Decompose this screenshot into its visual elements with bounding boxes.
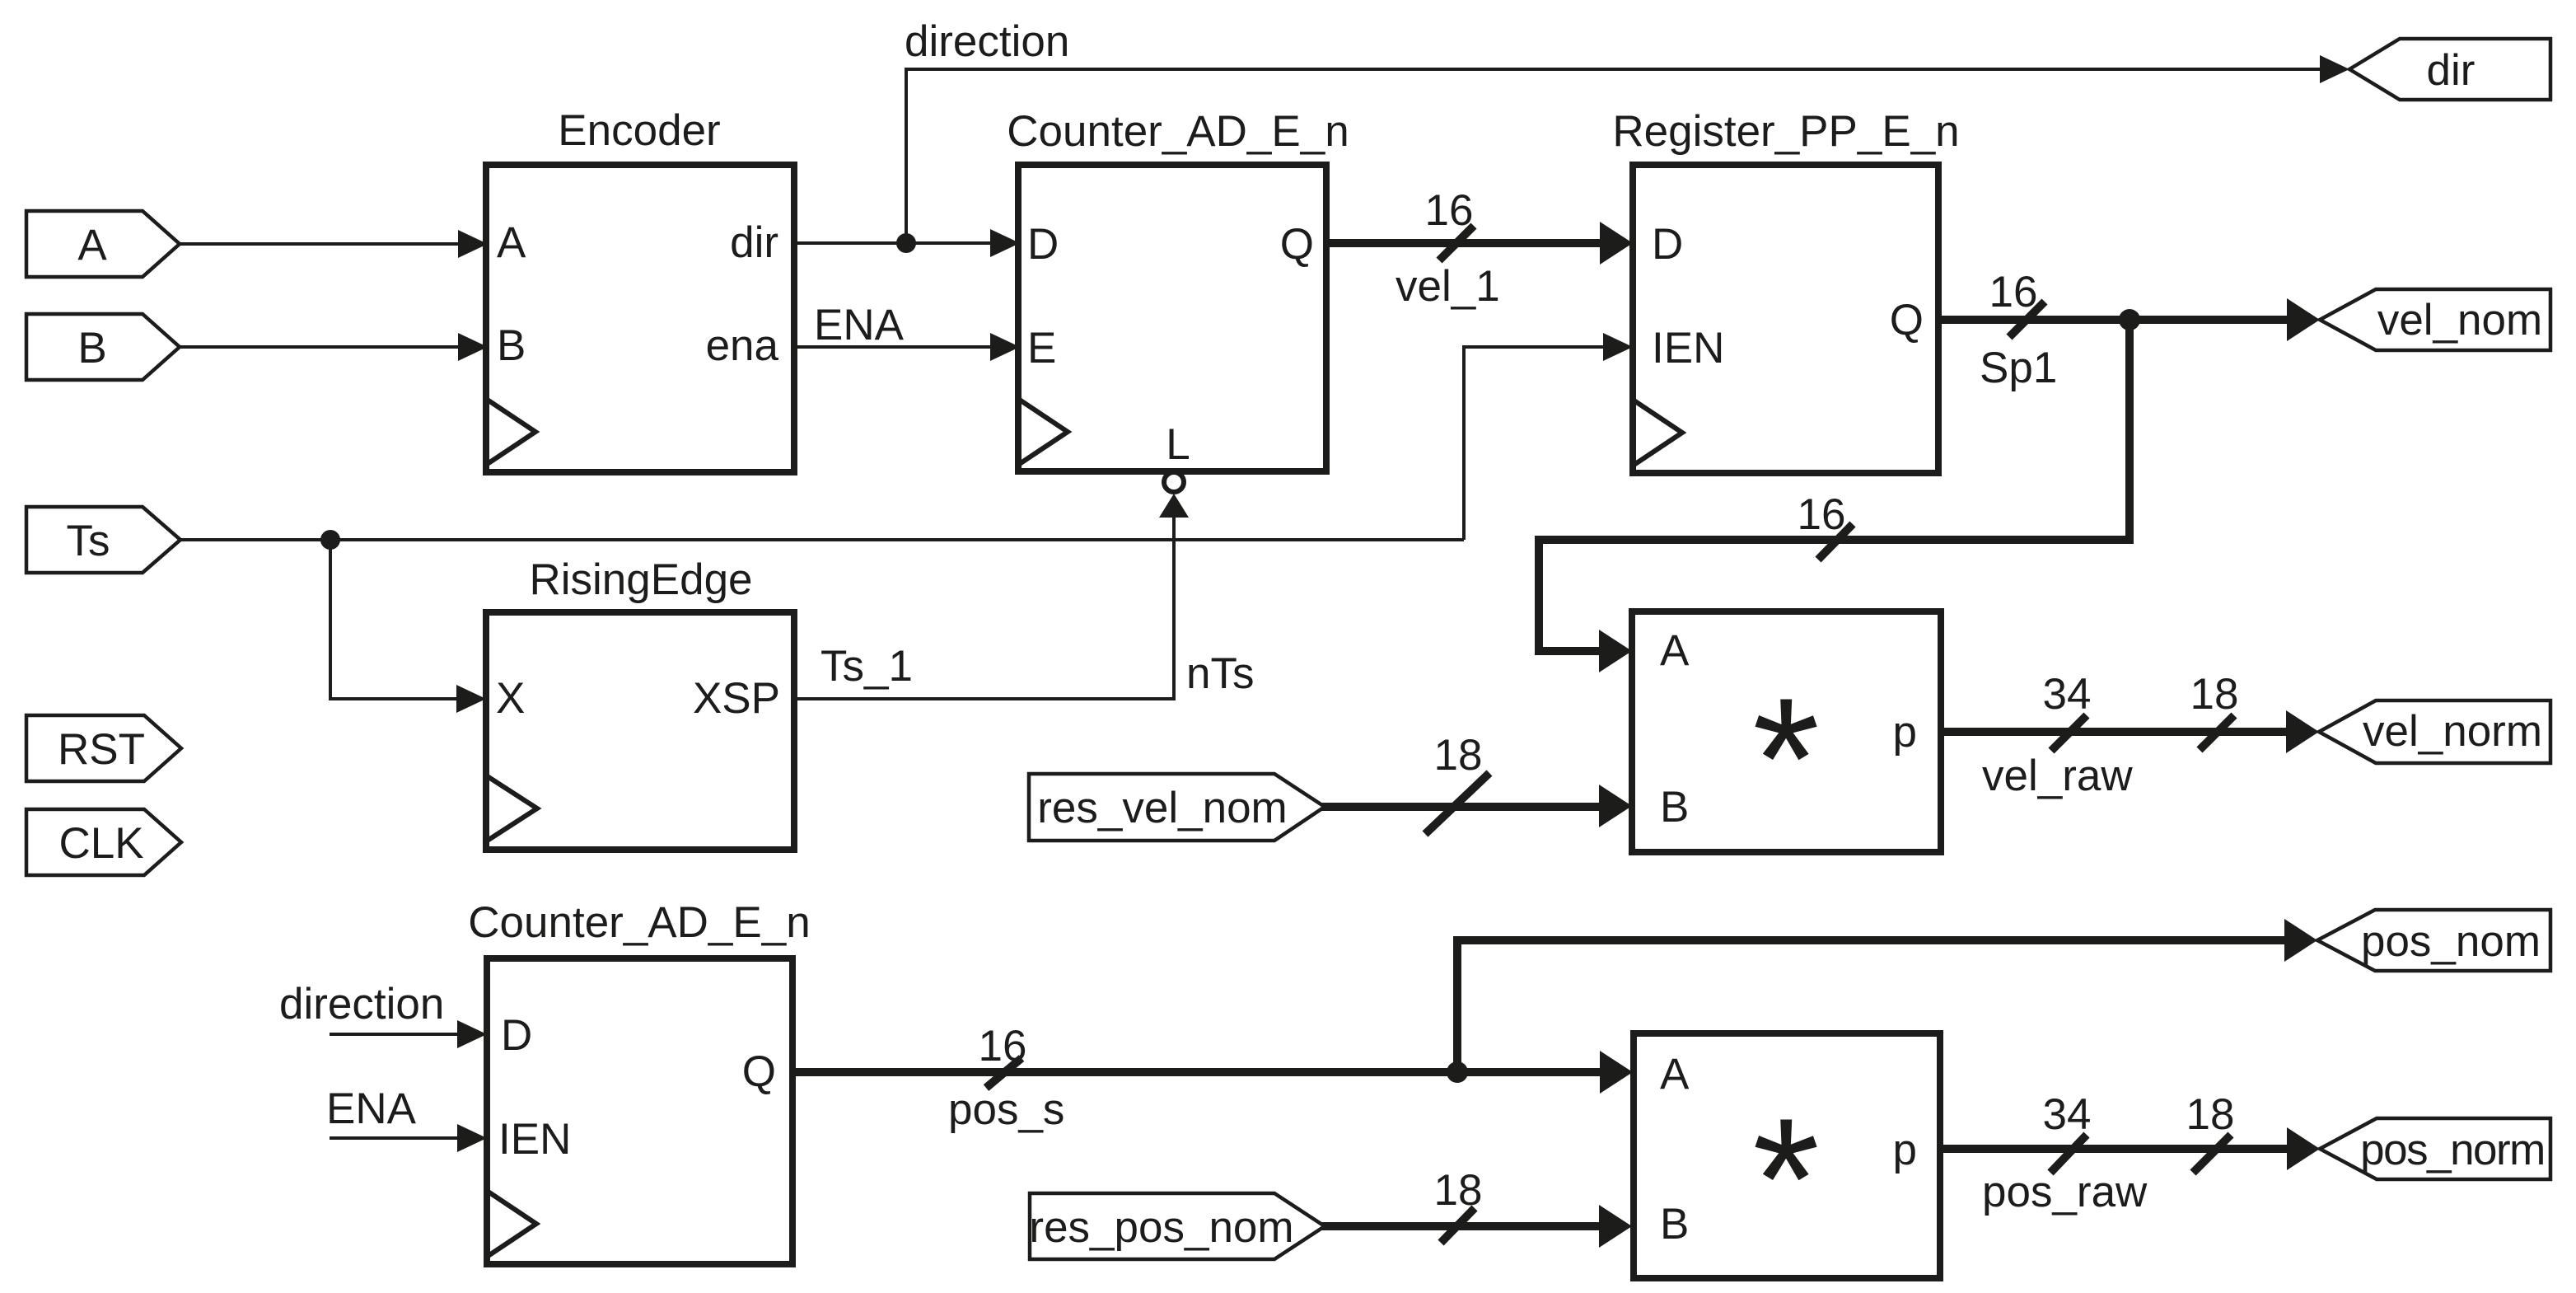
svg-text:B: B	[1660, 783, 1689, 832]
svg-text:RisingEdge: RisingEdge	[529, 555, 752, 604]
svg-text:res_pos_nom: res_pos_nom	[1029, 1203, 1293, 1252]
svg-text:18: 18	[1434, 731, 1483, 780]
svg-text:Register_PP_E_n: Register_PP_E_n	[1612, 107, 1959, 156]
svg-text:16: 16	[979, 1022, 1027, 1070]
svg-text:Q: Q	[742, 1047, 776, 1096]
svg-text:D: D	[501, 1011, 532, 1060]
svg-text:D: D	[1652, 220, 1683, 269]
svg-text:CLK: CLK	[58, 819, 143, 868]
svg-text:*: *	[1752, 662, 1820, 855]
svg-text:ena: ena	[706, 321, 779, 370]
svg-text:ENA: ENA	[326, 1085, 417, 1133]
svg-text:A: A	[77, 221, 107, 269]
svg-text:Sp1: Sp1	[1980, 344, 2057, 392]
svg-text:vel_1: vel_1	[1396, 262, 1500, 311]
svg-text:Encoder: Encoder	[558, 106, 720, 155]
svg-text:34: 34	[2043, 670, 2092, 719]
svg-text:18: 18	[2186, 1090, 2235, 1139]
svg-text:B: B	[1660, 1200, 1689, 1248]
svg-text:Counter_AD_E_n: Counter_AD_E_n	[1007, 107, 1349, 156]
svg-text:pos_norm: pos_norm	[2360, 1126, 2545, 1174]
svg-text:Q: Q	[1280, 220, 1314, 269]
svg-text:direction: direction	[279, 980, 444, 1028]
svg-text:vel_norm: vel_norm	[2363, 707, 2542, 756]
svg-text:E: E	[1027, 324, 1056, 372]
svg-text:p: p	[1893, 708, 1917, 757]
svg-text:vel_raw: vel_raw	[1982, 752, 2133, 800]
svg-text:dir: dir	[730, 218, 778, 267]
svg-text:18: 18	[1434, 1166, 1483, 1215]
svg-text:IEN: IEN	[1652, 324, 1724, 372]
svg-text:nTs: nTs	[1186, 649, 1254, 698]
svg-text:18: 18	[2190, 670, 2239, 719]
svg-text:XSP: XSP	[693, 674, 780, 723]
svg-text:ENA: ENA	[814, 301, 905, 349]
svg-text:Ts: Ts	[67, 517, 110, 565]
svg-text:res_vel_nom: res_vel_nom	[1037, 784, 1287, 832]
svg-text:IEN: IEN	[498, 1115, 571, 1164]
svg-text:pos_s: pos_s	[948, 1085, 1064, 1134]
svg-text:A: A	[1660, 1050, 1690, 1099]
svg-text:Counter_AD_E_n: Counter_AD_E_n	[468, 898, 810, 947]
svg-text:16: 16	[1425, 186, 1474, 235]
svg-text:X: X	[496, 674, 525, 723]
svg-text:B: B	[497, 321, 526, 370]
svg-text:dir: dir	[2427, 46, 2475, 95]
svg-text:p: p	[1893, 1126, 1917, 1174]
svg-text:Q: Q	[1890, 296, 1924, 344]
svg-text:34: 34	[2043, 1090, 2092, 1139]
svg-text:vel_nom: vel_nom	[2377, 296, 2542, 344]
svg-text:*: *	[1752, 1082, 1820, 1276]
svg-text:pos_raw: pos_raw	[1982, 1168, 2148, 1216]
svg-text:pos_nom: pos_nom	[2361, 917, 2541, 966]
svg-text:A: A	[497, 218, 526, 267]
svg-text:Ts_1: Ts_1	[820, 642, 913, 691]
svg-text:D: D	[1027, 220, 1059, 269]
svg-text:A: A	[1660, 626, 1690, 675]
svg-text:16: 16	[1798, 490, 1846, 539]
svg-text:L: L	[1166, 420, 1190, 469]
svg-text:B: B	[77, 324, 106, 372]
svg-text:RST: RST	[58, 725, 145, 774]
svg-text:direction: direction	[905, 17, 1069, 66]
svg-text:16: 16	[1989, 268, 2038, 316]
